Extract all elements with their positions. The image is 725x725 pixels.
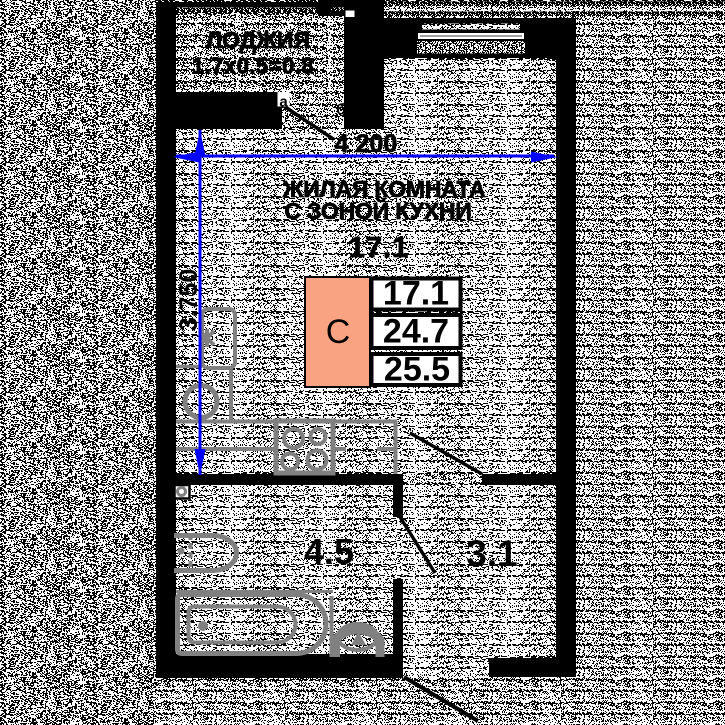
window band 1 [422,24,520,30]
background outside left [0,0,156,725]
wall mid horizontal right [482,474,575,485]
washbasin [336,630,381,657]
svg-text:24.7: 24.7 [383,313,449,351]
window sill [417,41,525,54]
svg-text:С: С [326,313,351,351]
svg-text:4.5: 4.5 [304,531,354,572]
window band 2 [418,33,524,39]
toilet [174,536,236,571]
door entrance swing [404,677,478,721]
door a notch [278,92,290,107]
kitchen sink cabinet [202,309,235,368]
door bath swing [400,517,435,573]
dim line vertical 3750 [199,130,202,475]
svg-text:а: а [279,94,288,111]
svg-text:4 200: 4 200 [335,130,398,158]
wall left outer [156,3,176,678]
counter line horizontal [176,420,397,424]
wall partition lower [393,579,403,678]
table row 2 [372,315,461,348]
loggia interior [176,8,344,92]
wall partition upper [393,474,403,517]
wall corner stub [318,1,331,16]
dark stripe top 1 [384,2,725,7]
door balcony swing [283,106,334,140]
table row 1 [372,279,461,310]
bathtub shelf line [176,590,333,593]
counter front line [176,447,397,451]
entrance opening [403,658,489,677]
wall mid horizontal left [156,474,403,485]
svg-text:ЛОДЖИЯ: ЛОДЖИЯ [206,27,310,53]
wall bottom [156,654,403,678]
svg-text:25.5: 25.5 [384,351,450,389]
dark stripe top 2 [350,12,725,17]
wall right outer [556,18,576,663]
wall bottom right [489,658,576,677]
svg-text:С ЗОНОЙ КУХНИ: С ЗОНОЙ КУХНИ [284,197,471,224]
stove [276,421,333,473]
wall loggia top thin [156,2,352,8]
svg-text:3.750: 3.750 [175,269,203,332]
kitchen partition vline [394,421,398,474]
dim line horizontal 4200 [176,155,554,158]
bathroom interior [176,485,393,654]
washing machine circle [185,386,217,418]
loggia top dense band [176,8,344,12]
vent square [175,485,190,499]
wall central bar [344,6,384,129]
section box salmon [305,277,370,387]
svg-text:1.7х0.5=0.8: 1.7х0.5=0.8 [192,54,314,79]
door opening bath [393,517,403,579]
faucet star [200,329,214,347]
svg-text:б: б [336,102,346,119]
wall top strip [318,0,384,7]
main room interior [176,129,556,474]
svg-text:17.1: 17.1 [349,232,409,264]
hall interior [403,485,553,658]
bathtub [178,595,327,654]
wall loggia divider [156,92,282,129]
wall top with window [384,18,576,58]
door hall swing [410,433,482,474]
table row 3 [372,354,461,385]
svg-text:17.1: 17.1 [383,275,449,313]
counter vline short [229,368,233,421]
svg-text:3.1: 3.1 [466,533,517,574]
